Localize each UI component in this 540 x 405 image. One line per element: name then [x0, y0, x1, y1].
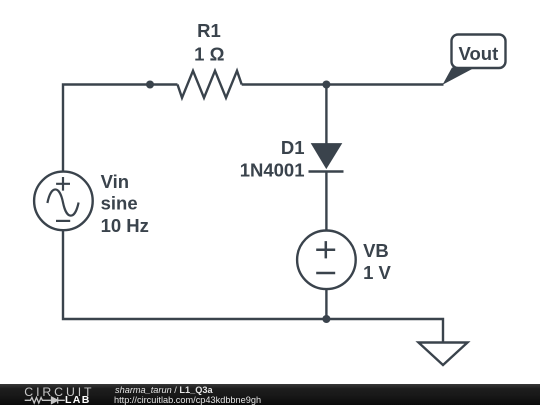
wire VB to bottom	[325, 289, 327, 319]
wire middle vertical upper (node to diode)	[325, 85, 327, 146]
diode D1 triangle	[311, 143, 343, 169]
wire top-right horizontal	[242, 83, 444, 85]
resistor R1	[178, 71, 242, 98]
Vout flag tail	[443, 68, 476, 85]
voltage source VB circle	[297, 230, 356, 289]
svg-text:1 V: 1 V	[363, 262, 391, 283]
wire left vertical lower + bottom horizontal + ground lead	[63, 230, 443, 343]
svg-text:LAB: LAB	[65, 394, 91, 405]
svg-text:1N4001: 1N4001	[240, 159, 305, 180]
node dot junction 3	[322, 315, 330, 323]
svg-text:1 Ω: 1 Ω	[194, 43, 224, 64]
svg-text:VB: VB	[363, 240, 389, 261]
svg-text:sine: sine	[101, 192, 138, 213]
svg-text:10 Hz: 10 Hz	[101, 215, 149, 236]
node dot junction 2	[322, 81, 330, 89]
diode D1 cathode bar	[309, 170, 344, 172]
wire diode to VB	[325, 172, 327, 232]
node dot junction 1	[146, 81, 154, 89]
logo diode	[52, 397, 58, 403]
VB minus sign	[316, 272, 335, 275]
ground triangle	[419, 343, 468, 366]
svg-text:Vout: Vout	[459, 43, 499, 64]
wire top-left horizontal + left vertical upper	[63, 85, 178, 173]
footer bar	[0, 384, 540, 405]
footer credit line	[115, 386, 213, 395]
footer url line	[114, 396, 261, 405]
svg-text:R1: R1	[197, 20, 221, 41]
svg-text:Vin: Vin	[101, 171, 129, 192]
VB plus sign	[316, 241, 335, 258]
Vin plus sign	[56, 177, 70, 191]
CircuitLab logo	[0, 384, 110, 405]
Vin sine waveform	[47, 189, 78, 215]
svg-text:D1: D1	[281, 137, 305, 158]
voltage source Vin circle	[34, 172, 93, 231]
Vout flag box	[452, 35, 506, 69]
Vin minus sign	[56, 220, 70, 222]
logo squiggle wire	[25, 398, 65, 404]
